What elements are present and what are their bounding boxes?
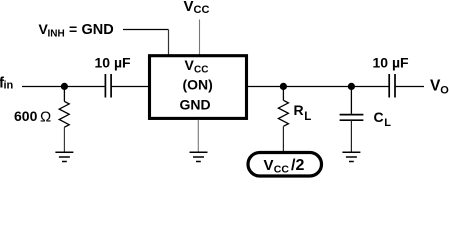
node V_CC (top supply label)	[184, 0, 210, 16]
capacitor C_L	[340, 115, 364, 121]
node f_in (input label)	[0, 75, 14, 92]
wire output horizontal	[247, 86, 389, 88]
svg-text:Ω: Ω	[40, 108, 51, 125]
resistor 600 ohm	[59, 101, 69, 127]
node V_INH = GND label	[39, 21, 114, 40]
ground under box	[190, 152, 208, 161]
wire input horizontal	[22, 86, 105, 88]
node junction dot at input	[61, 83, 68, 90]
svg-text:V: V	[184, 0, 194, 15]
wire box GND drop	[197, 120, 199, 152]
ground under C_L	[342, 152, 360, 161]
wire V_INH horizontal	[123, 29, 169, 31]
capacitor input 10 uF	[105, 74, 111, 98]
svg-text:/2: /2	[291, 157, 304, 174]
node junction dot at C_L	[348, 83, 355, 90]
svg-text:L: L	[304, 111, 311, 123]
svg-text:V: V	[264, 157, 274, 174]
svg-text:CC: CC	[194, 65, 208, 76]
svg-text:600: 600	[14, 108, 38, 124]
node V_CC/2 (oval source)	[248, 153, 322, 177]
wire output cap to V_O	[395, 86, 424, 88]
wire resistor top lead	[63, 87, 65, 102]
svg-text:INH: INH	[48, 29, 65, 40]
pin label V_CC (box line 1)	[185, 57, 209, 76]
wire R_L top lead	[282, 87, 284, 101]
capacitor output 10 uF	[389, 74, 395, 98]
wire cap to box	[111, 86, 148, 88]
wire C_L top lead	[350, 87, 352, 114]
resistor R_L	[278, 100, 288, 126]
svg-text:C: C	[374, 109, 384, 125]
wire V_CC drop to box top	[199, 20, 201, 56]
svg-text:10 µF: 10 µF	[95, 55, 132, 71]
svg-text:CC: CC	[194, 4, 210, 16]
wire resistor bottom lead	[63, 127, 65, 152]
label R_L	[294, 102, 312, 123]
svg-text:L: L	[384, 117, 391, 129]
svg-text:R: R	[294, 102, 304, 118]
wire R_L bottom lead to oval	[282, 126, 284, 151]
wire C_L bottom lead	[350, 120, 352, 152]
svg-text:(ON): (ON)	[183, 77, 213, 93]
label V_CC/2	[264, 157, 305, 176]
value label 600 ohm	[14, 108, 51, 125]
svg-text:GND: GND	[180, 97, 211, 113]
node junction dot at R_L	[280, 83, 287, 90]
node V_O (output label)	[430, 78, 449, 97]
svg-text:GND: GND	[82, 22, 114, 38]
svg-text:V: V	[185, 57, 195, 73]
wire V_INH drop to box top	[168, 30, 170, 56]
label C_L	[374, 109, 392, 129]
svg-text:CC: CC	[274, 164, 290, 176]
op-amp U1 (device under test box)	[150, 56, 247, 119]
svg-text:in: in	[4, 80, 14, 92]
svg-text:O: O	[440, 84, 449, 96]
ground under 600 ohm	[55, 152, 73, 161]
svg-text:=: =	[69, 21, 77, 37]
svg-text:10 µF: 10 µF	[373, 55, 410, 71]
